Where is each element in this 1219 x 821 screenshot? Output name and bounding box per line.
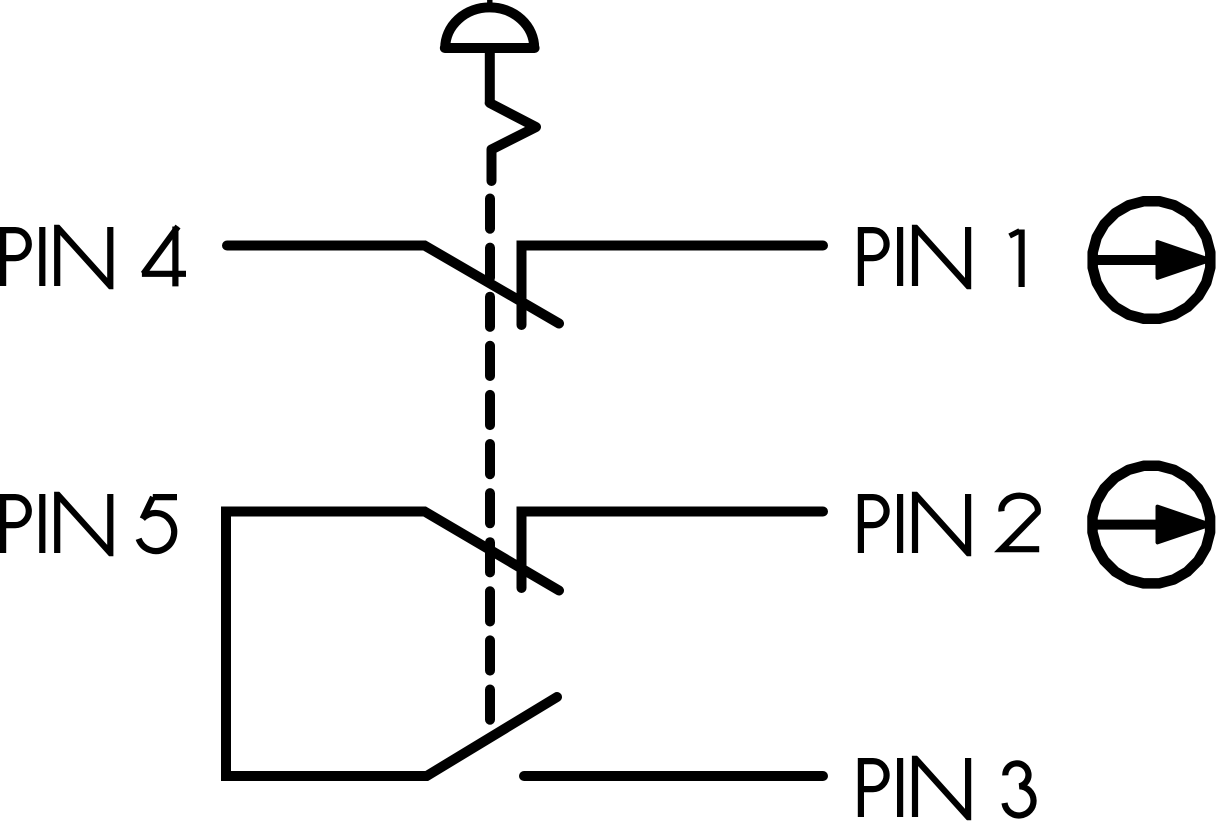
mechanical linkage dashed line — [485, 199, 495, 739]
fixed contact bar 2 and wire to PIN 2 — [522, 512, 824, 589]
spring zigzag — [490, 103, 536, 181]
label PIN 3 — [861, 758, 968, 817]
actuation direction circle 1 — [1093, 201, 1211, 319]
wire PIN 4 lead and NC contact blade 1 — [227, 246, 559, 324]
wire to PIN 3 — [524, 771, 823, 781]
pushbutton actuator stub — [487, 0, 492, 5]
pushbutton actuator base line — [445, 43, 535, 53]
arrow shaft 1 — [1094, 255, 1162, 265]
actuator stem — [485, 44, 495, 105]
label PIN 1 — [861, 227, 968, 286]
pushbutton actuator dome — [445, 7, 534, 48]
label PIN 4 — [3, 227, 110, 286]
label PIN 2 — [861, 494, 968, 553]
actuation direction circle 2 — [1093, 466, 1211, 584]
fixed contact bar 1 and wire to PIN 1 — [522, 246, 824, 326]
label PIN 5 — [3, 494, 110, 553]
arrow head 2 — [1158, 507, 1211, 543]
arrow shaft 2 — [1094, 520, 1162, 530]
arrow head 1 — [1158, 242, 1211, 278]
wire PIN 5 loop and NC contact blade 2 — [226, 512, 559, 777]
